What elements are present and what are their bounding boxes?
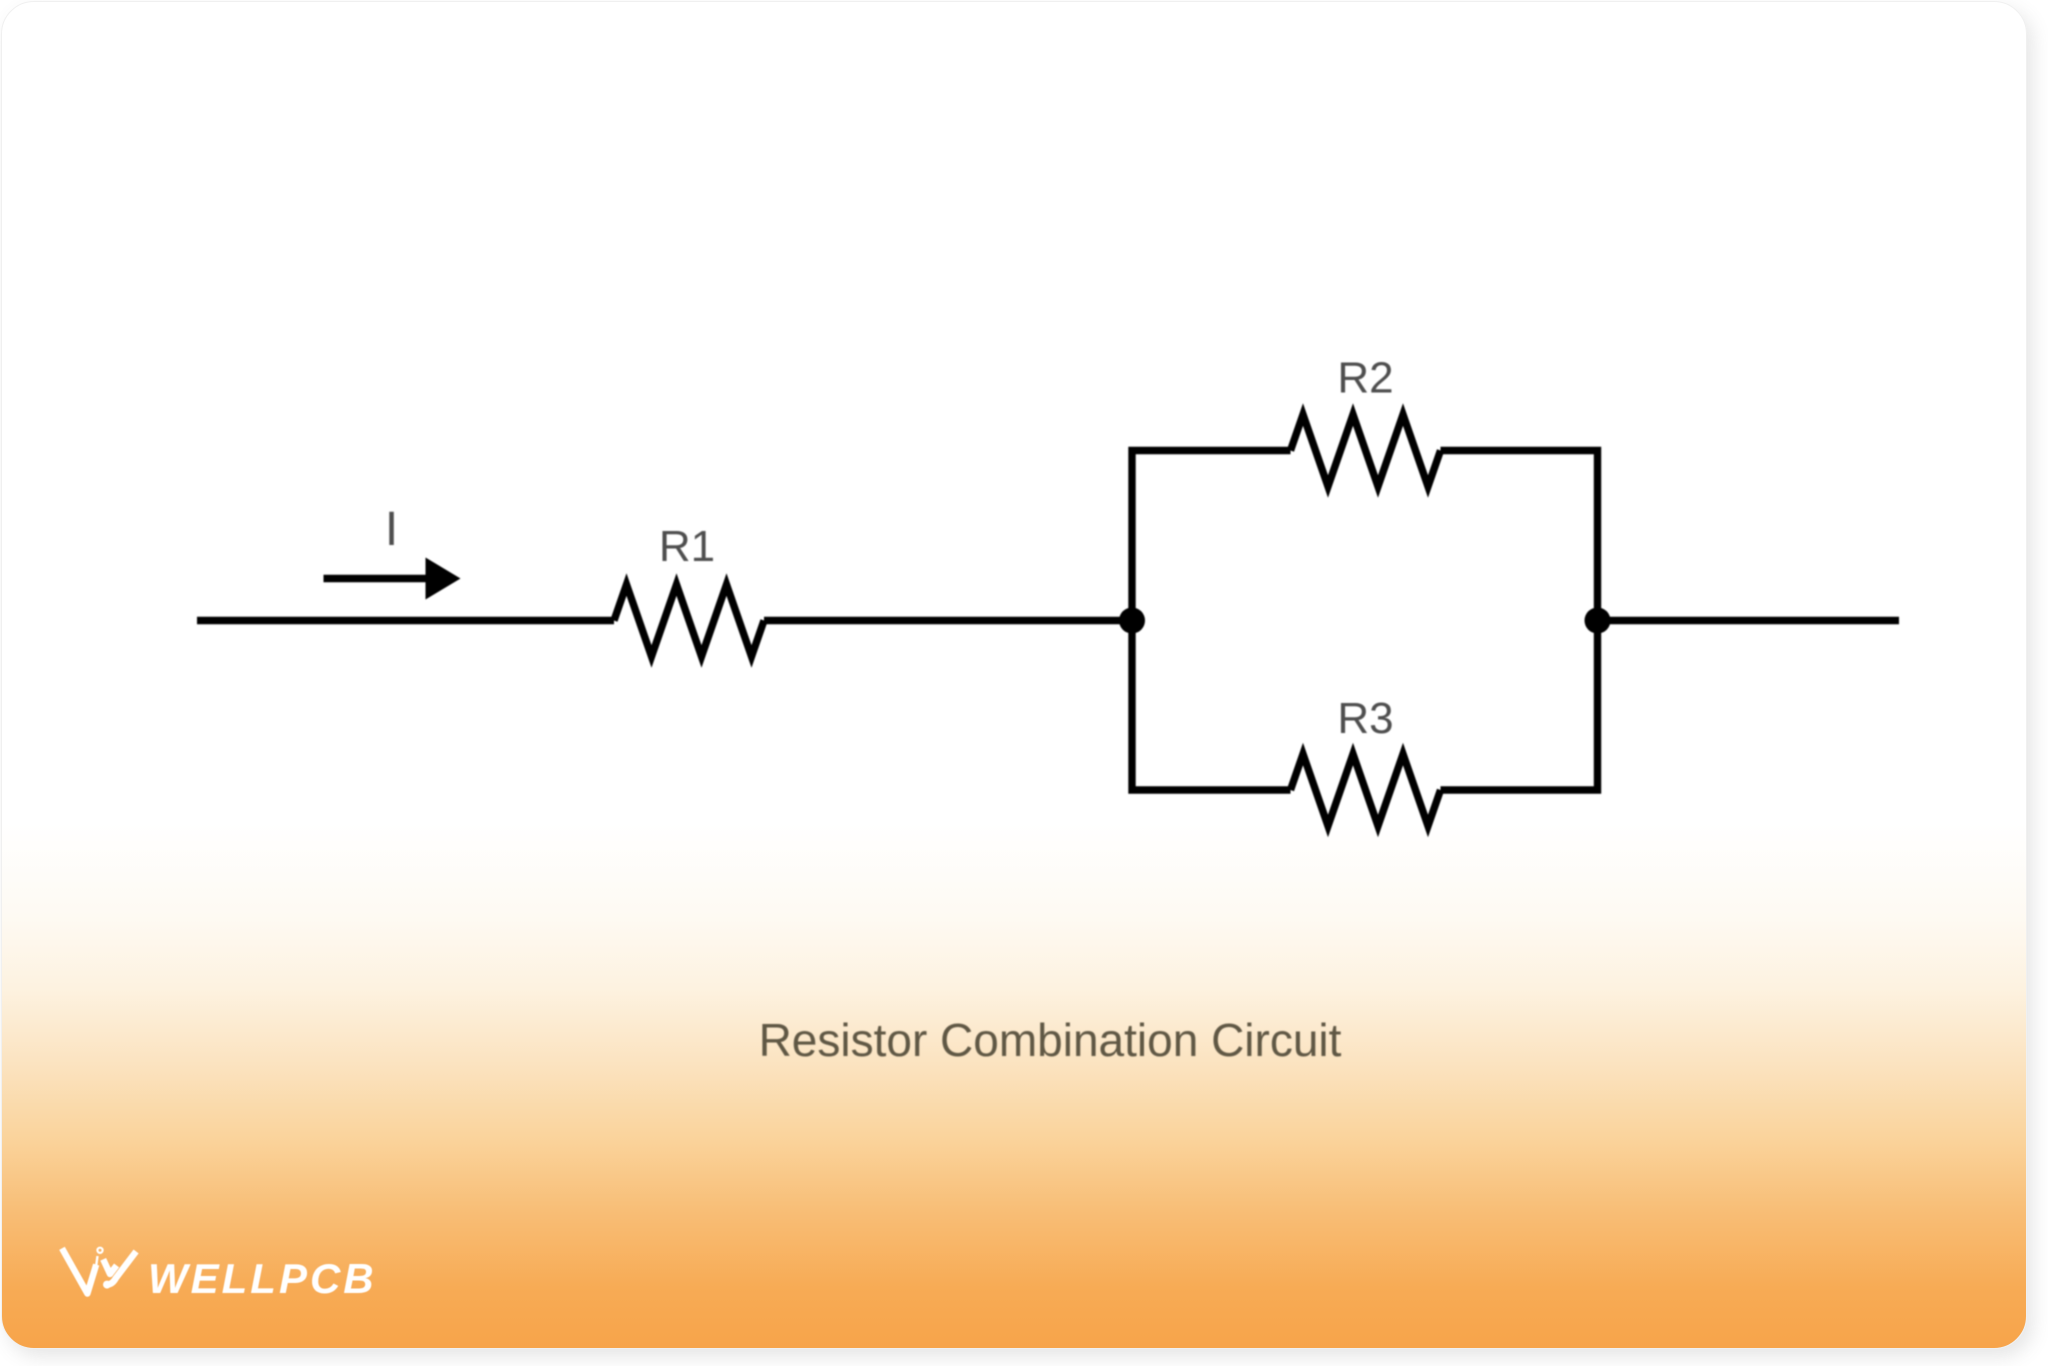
logo dot <box>103 1281 111 1289</box>
svg-text:R2: R2 <box>1337 354 1393 403</box>
current arrow I <box>324 558 461 600</box>
svg-text:R1: R1 <box>659 522 715 571</box>
svg-text:R3: R3 <box>1337 694 1393 743</box>
logo mark W <box>62 1248 136 1294</box>
resistor R2 <box>1291 415 1441 487</box>
wire right branch bracket <box>1441 451 1598 791</box>
wire R1 to node A <box>764 617 1132 624</box>
svg-text:I: I <box>385 503 398 556</box>
wire input segment <box>197 617 614 624</box>
wire output segment <box>1598 617 1900 624</box>
node B junction dot <box>1585 608 1611 634</box>
svg-text:WELLPCB: WELLPCB <box>148 1255 377 1302</box>
resistor R3 <box>1291 754 1441 826</box>
svg-text:Resistor Combination Circuit: Resistor Combination Circuit <box>759 1014 1342 1066</box>
node A junction dot <box>1119 608 1145 634</box>
wire left branch bracket <box>1132 451 1291 791</box>
resistor R1 <box>614 585 764 657</box>
